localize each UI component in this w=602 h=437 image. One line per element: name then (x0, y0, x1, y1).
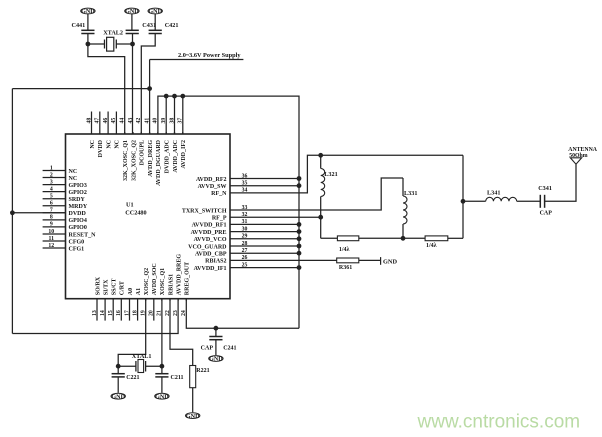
capacitor C421 (149, 22, 179, 34)
svg-text:31: 31 (242, 219, 248, 225)
capacitor C441 (72, 22, 95, 34)
svg-text:DVDD_ADC: DVDD_ADC (165, 140, 171, 173)
svg-text:4: 4 (50, 186, 53, 192)
pin 48 (NC) (86, 112, 96, 149)
pin 43 (32K_XOSC_Q2) (128, 118, 138, 181)
pin 8 (GPIO4) (43, 215, 87, 225)
svg-text:SS/CT: SS/CT (112, 279, 118, 296)
wire to pin 7 DVDD (12, 212, 65, 214)
svg-text:A1: A1 (136, 288, 142, 295)
node bus junction (297, 244, 302, 249)
node bus junction (297, 251, 302, 256)
svg-text:AVVDD_RREG: AVVDD_RREG (176, 254, 182, 296)
wire (146, 365, 162, 367)
svg-text:C221: C221 (126, 375, 139, 381)
wire RF_N to matching network (253, 155, 463, 193)
svg-text:32: 32 (242, 212, 248, 218)
pin 1 (NC) (43, 165, 78, 175)
pin 17 (A0) (124, 288, 134, 321)
pin 47 (DVDD) (95, 112, 105, 158)
pin 14 (SI/TX) (100, 279, 110, 321)
svg-text:RREG_OUT: RREG_OUT (185, 262, 191, 295)
ground (148, 8, 162, 14)
svg-text:CAP: CAP (201, 346, 214, 352)
wire 32K_XOSC_Q2 to pin 43 (132, 44, 134, 134)
svg-text:C421: C421 (165, 22, 179, 29)
svg-text:XTAL1: XTAL1 (132, 353, 152, 360)
pin 18 (A1) (132, 288, 142, 321)
node XTAL2 right junction (130, 42, 135, 47)
node DVDD tap (10, 210, 15, 215)
svg-text:AVDD_SOC: AVDD_SOC (152, 263, 158, 295)
svg-text:VCO_GUARD: VCO_GUARD (188, 244, 227, 250)
svg-text:AVDD_ADC: AVDD_ADC (173, 140, 179, 173)
svg-text:C/RT: C/RT (120, 281, 126, 295)
svg-text:32K_XOSC_Q1: 32K_XOSC_Q1 (123, 140, 129, 181)
pin 24 (RREG_OUT) (181, 262, 191, 316)
wire supply loop left (11, 89, 13, 334)
pin 23 (AVVDD_RREG) (173, 254, 183, 316)
node rail pin 39 (164, 94, 169, 99)
svg-text:48: 48 (86, 118, 92, 124)
svg-text:NC: NC (90, 140, 96, 149)
pin 34 (RF_N) (211, 188, 253, 198)
op-amp U1 CC2480 IC body (66, 134, 231, 299)
svg-text:AVDD_CBP: AVDD_CBP (195, 252, 227, 258)
pin 30 (AVVDD_PRE) (191, 226, 253, 236)
inductor L321 (321, 155, 338, 217)
svg-text:C431: C431 (142, 22, 156, 29)
wire supply to pin 41 AVDD_DREG (149, 60, 151, 135)
wire 32K_XOSC_Q1 to pin 44 (88, 44, 125, 134)
ground (81, 8, 95, 14)
wire (87, 34, 89, 45)
svg-text:C441: C441 (72, 22, 86, 29)
svg-text:33: 33 (242, 205, 248, 211)
svg-text:SI/TX: SI/TX (103, 279, 109, 295)
resistor 1/4 wave stub right (425, 236, 448, 249)
capacitor C431 (126, 22, 156, 34)
pin 11 (CFG0) (43, 236, 85, 246)
svg-text:XOSC_Q2: XOSC_Q2 (144, 268, 150, 295)
svg-text:GND: GND (186, 414, 200, 420)
pin 39 (DVDD_ADC) (161, 118, 171, 174)
svg-text:GND: GND (209, 357, 223, 363)
svg-text:27: 27 (242, 248, 248, 254)
wire (165, 96, 167, 134)
svg-text:NC: NC (106, 140, 112, 149)
svg-text:GPIO3: GPIO3 (69, 183, 87, 189)
ground (186, 413, 200, 419)
svg-text:L331: L331 (404, 190, 417, 197)
wire (87, 14, 89, 30)
svg-text:AVVDD_PRE: AVVDD_PRE (191, 230, 227, 236)
pin 20 (AVDD_SOC) (149, 263, 159, 320)
pin 29 (AVVD_VCO) (194, 234, 253, 244)
pin 15 (SS/CT) (108, 279, 118, 321)
svg-text:25: 25 (242, 262, 248, 268)
resistor R361 (337, 258, 359, 271)
svg-text:20: 20 (149, 310, 155, 316)
svg-text:AVDD_IF2: AVDD_IF2 (181, 140, 187, 169)
svg-text:SO/RX: SO/RX (95, 276, 101, 295)
wire (215, 340, 217, 355)
svg-text:47: 47 (95, 118, 101, 124)
svg-text:MRDY: MRDY (69, 204, 88, 210)
svg-text:DCOUPL: DCOUPL (140, 140, 146, 165)
svg-text:14: 14 (100, 310, 106, 316)
node bus junction (297, 222, 302, 227)
node rail pin 38 (172, 94, 177, 99)
inductor L331 (403, 178, 417, 238)
svg-text:TXRX_SWITCH: TXRX_SWITCH (182, 208, 227, 214)
svg-text:17: 17 (124, 310, 130, 316)
svg-text:50Ohm: 50Ohm (569, 153, 588, 159)
svg-text:CFG0: CFG0 (69, 239, 85, 245)
svg-text:GND: GND (155, 394, 169, 400)
node C241 tap (214, 326, 219, 331)
capacitor C221 (112, 374, 140, 382)
node bus junction (297, 229, 302, 234)
resistor R221 (190, 366, 210, 388)
node XTAL2 left junction (86, 42, 91, 47)
node L321 bottom (318, 215, 323, 220)
wire supply loop top (12, 88, 149, 90)
svg-text:CC2480: CC2480 (125, 209, 146, 216)
wire pin 28 to AVDD bus (253, 245, 299, 247)
wire TXRX_SWITCH to L331 (253, 178, 403, 210)
pin 9 (GPIO0) (43, 222, 87, 232)
svg-text:36: 36 (242, 173, 248, 179)
svg-text:AVVD_VCO: AVVD_VCO (194, 237, 227, 243)
svg-text:RBIAS2: RBIAS2 (205, 259, 226, 265)
svg-text:2.0~3.6V Power Supply: 2.0~3.6V Power Supply (178, 52, 241, 59)
ground (209, 356, 223, 362)
node bus junction (297, 265, 302, 270)
svg-text:U1: U1 (126, 202, 134, 209)
node supply junction (147, 86, 152, 91)
svg-text:8: 8 (50, 215, 53, 221)
svg-text:6: 6 (50, 201, 53, 207)
wire DCOUPL to pin 42 (141, 34, 155, 135)
wire (359, 259, 381, 261)
crystal XTAL2 (103, 30, 123, 52)
svg-text:www.cntronics.com: www.cntronics.com (417, 412, 581, 433)
wire (161, 366, 163, 374)
svg-text:34: 34 (242, 188, 248, 194)
svg-text:2: 2 (50, 172, 53, 178)
wire (154, 14, 156, 30)
svg-text:XTAL2: XTAL2 (103, 30, 123, 37)
ground (111, 393, 125, 399)
wire (118, 365, 136, 367)
pin 31 (AVVDD_RF1) (192, 219, 253, 229)
pin 38 (AVDD_ADC) (169, 118, 179, 173)
svg-text:GPIO0: GPIO0 (69, 225, 87, 231)
node XTAL1 right junction (160, 364, 165, 369)
node bus junction (297, 183, 302, 188)
pin 22 (RBIAS1) (165, 274, 175, 316)
svg-text:AVDD_DGUARD: AVDD_DGUARD (156, 139, 162, 186)
svg-text:SRDY: SRDY (69, 197, 86, 203)
svg-text:16: 16 (116, 310, 122, 316)
wire (545, 164, 576, 201)
svg-text:RF_N: RF_N (211, 191, 227, 197)
pin 21 (XOSC_Q1) (157, 268, 167, 316)
capacitor C211 (155, 374, 183, 382)
pin 35 (AVVD_SW) (198, 181, 253, 191)
pin 40 (AVDD_DGUARD) (153, 118, 163, 186)
svg-text:35: 35 (242, 181, 248, 187)
pin 7 (DVDD) (43, 208, 87, 218)
svg-text:18: 18 (132, 310, 138, 316)
pin 16 (C/RT) (116, 281, 126, 321)
pin 12 (CFG1) (43, 243, 85, 253)
wire RREG_OUT to AVDD bus (186, 299, 299, 329)
svg-text:GND: GND (383, 258, 397, 265)
svg-text:NC: NC (69, 176, 78, 182)
svg-text:10: 10 (48, 229, 54, 235)
svg-text:AVDD_RF2: AVDD_RF2 (196, 177, 227, 183)
svg-text:45: 45 (111, 118, 117, 124)
pin 32 (RF_P) (212, 212, 253, 222)
svg-text:5: 5 (50, 194, 53, 200)
node XTAL1 left junction (116, 364, 121, 369)
svg-text:RF_P: RF_P (212, 216, 227, 222)
pin 42 (DCOUPL) (136, 118, 146, 166)
svg-text:13: 13 (92, 310, 98, 316)
wire supply loop bottom (12, 299, 178, 334)
pin 13 (SO/RX) (92, 276, 102, 320)
node GND net label (381, 257, 398, 265)
svg-text:29: 29 (242, 234, 248, 240)
svg-text:XOSC_Q1: XOSC_Q1 (160, 268, 166, 295)
wire (88, 43, 105, 45)
wire pin 25 to AVDD bus (253, 267, 299, 269)
wire pin 31 to AVDD bus (253, 223, 299, 225)
svg-text:12: 12 (48, 243, 54, 249)
wire (215, 328, 217, 336)
svg-text:46: 46 (103, 118, 109, 124)
pin 37 (AVDD_IF2) (178, 118, 188, 169)
wire (320, 217, 322, 238)
pin 4 (GPIO2) (43, 186, 87, 196)
wire (174, 96, 176, 134)
pin 33 (TXRX_SWITCH) (182, 205, 253, 215)
wire RBIAS2 to R361 (253, 259, 337, 261)
pin 10 (RESET_N) (43, 229, 97, 239)
svg-text:C241: C241 (223, 346, 236, 352)
wire pin 36 to AVDD bus (253, 178, 299, 180)
svg-text:A0: A0 (128, 288, 134, 295)
pin 36 (AVDD_RF2) (196, 173, 253, 183)
svg-text:GPIO4: GPIO4 (69, 218, 87, 224)
pin 45 (NC) (111, 112, 121, 149)
wire (182, 96, 184, 134)
pin 2 (NC) (43, 172, 78, 182)
svg-text:DVDD: DVDD (98, 139, 104, 157)
pin 19 (XOSC_Q2) (141, 268, 151, 316)
node L331 bottom (401, 236, 406, 241)
svg-text:1/4λ: 1/4λ (339, 247, 350, 253)
node bus junction (297, 236, 302, 241)
svg-text:C341: C341 (538, 185, 552, 192)
pin 41 (AVDD_DREG) (144, 118, 154, 177)
svg-text:L341: L341 (487, 190, 500, 197)
wire (131, 14, 133, 30)
svg-text:R361: R361 (339, 265, 352, 271)
svg-text:C211: C211 (171, 375, 184, 381)
svg-text:DVDD: DVDD (69, 211, 87, 217)
svg-text:3: 3 (50, 179, 53, 185)
svg-text:L321: L321 (324, 171, 337, 178)
svg-text:CFG1: CFG1 (69, 246, 85, 252)
svg-text:R221: R221 (196, 368, 209, 374)
svg-text:CAP: CAP (540, 211, 553, 217)
pin 6 (MRDY) (43, 201, 88, 211)
wire pin 35 to AVDD bus (253, 185, 299, 187)
ground (125, 8, 139, 14)
svg-text:GPIO2: GPIO2 (69, 190, 87, 196)
pin 44 (32K_XOSC_Q1) (120, 118, 130, 181)
pin 3 (GPIO3) (43, 179, 87, 189)
pin 25 (AVVDD_IF1) (194, 262, 253, 272)
svg-text:AVVDD_IF1: AVVDD_IF1 (194, 266, 227, 272)
svg-text:RBIAS1: RBIAS1 (168, 274, 174, 295)
svg-text:26: 26 (242, 255, 248, 261)
wire XOSC_Q2 pin 19 to crystal (118, 299, 146, 367)
svg-text:GND: GND (111, 394, 125, 400)
wire pin 30 to AVDD bus (253, 231, 299, 233)
capacitor C241 (201, 337, 237, 352)
wire RF bottom rail (321, 237, 338, 239)
node 2.0~3.6V Power Supply (150, 52, 244, 60)
wire pin 29 to AVDD bus (253, 238, 299, 240)
svg-text:11: 11 (49, 236, 55, 242)
svg-text:AVVD_SW: AVVD_SW (198, 184, 227, 190)
node antenna tap (461, 199, 466, 204)
wire AVDD rail to bus (158, 96, 299, 328)
svg-text:1/4λ: 1/4λ (426, 243, 437, 249)
node L321 top (318, 153, 323, 158)
wire (117, 366, 119, 374)
resistor 1/4 wave stub left (337, 236, 358, 253)
wire (517, 200, 541, 202)
wire pin 27 to AVDD bus (253, 252, 299, 254)
capacitor C341 (538, 185, 552, 217)
svg-text:RESET_N: RESET_N (69, 232, 97, 238)
svg-text:NC: NC (69, 169, 78, 175)
ground (155, 393, 169, 399)
svg-text:1: 1 (50, 165, 53, 171)
antenna ANTENNA 50ohm (568, 147, 597, 164)
pin 5 (SRDY) (43, 194, 86, 204)
wire RF_P to L321 bottom (253, 216, 321, 218)
node rail pin 37 (180, 94, 185, 99)
svg-text:AVDD_DREG: AVDD_DREG (148, 140, 154, 177)
svg-text:AVVDD_RF1: AVVDD_RF1 (192, 223, 227, 229)
node bus junction (297, 176, 302, 181)
pin 28 (VCO_GUARD) (188, 241, 253, 251)
wire (192, 388, 194, 413)
inductor L341 (486, 190, 517, 202)
svg-text:30: 30 (242, 226, 248, 232)
wire XOSC_Q1 pin 21 (161, 299, 163, 367)
crystal XTAL1 (132, 353, 152, 373)
wire RF right vertical (462, 155, 464, 238)
pin 46 (NC) (103, 112, 113, 149)
wire (116, 43, 132, 45)
wire (463, 200, 486, 202)
svg-text:NC: NC (115, 140, 121, 149)
pin 27 (AVDD_CBP) (195, 248, 253, 258)
svg-text:15: 15 (108, 310, 114, 316)
svg-text:9: 9 (50, 222, 53, 228)
wire (161, 377, 163, 393)
pin 26 (RBIAS2) (205, 255, 253, 265)
wire (117, 377, 119, 393)
svg-text:28: 28 (242, 241, 248, 247)
wire RBIAS1 pin 22 to R221 (170, 299, 193, 366)
svg-text:32K_XOSC_Q2: 32K_XOSC_Q2 (131, 140, 137, 181)
